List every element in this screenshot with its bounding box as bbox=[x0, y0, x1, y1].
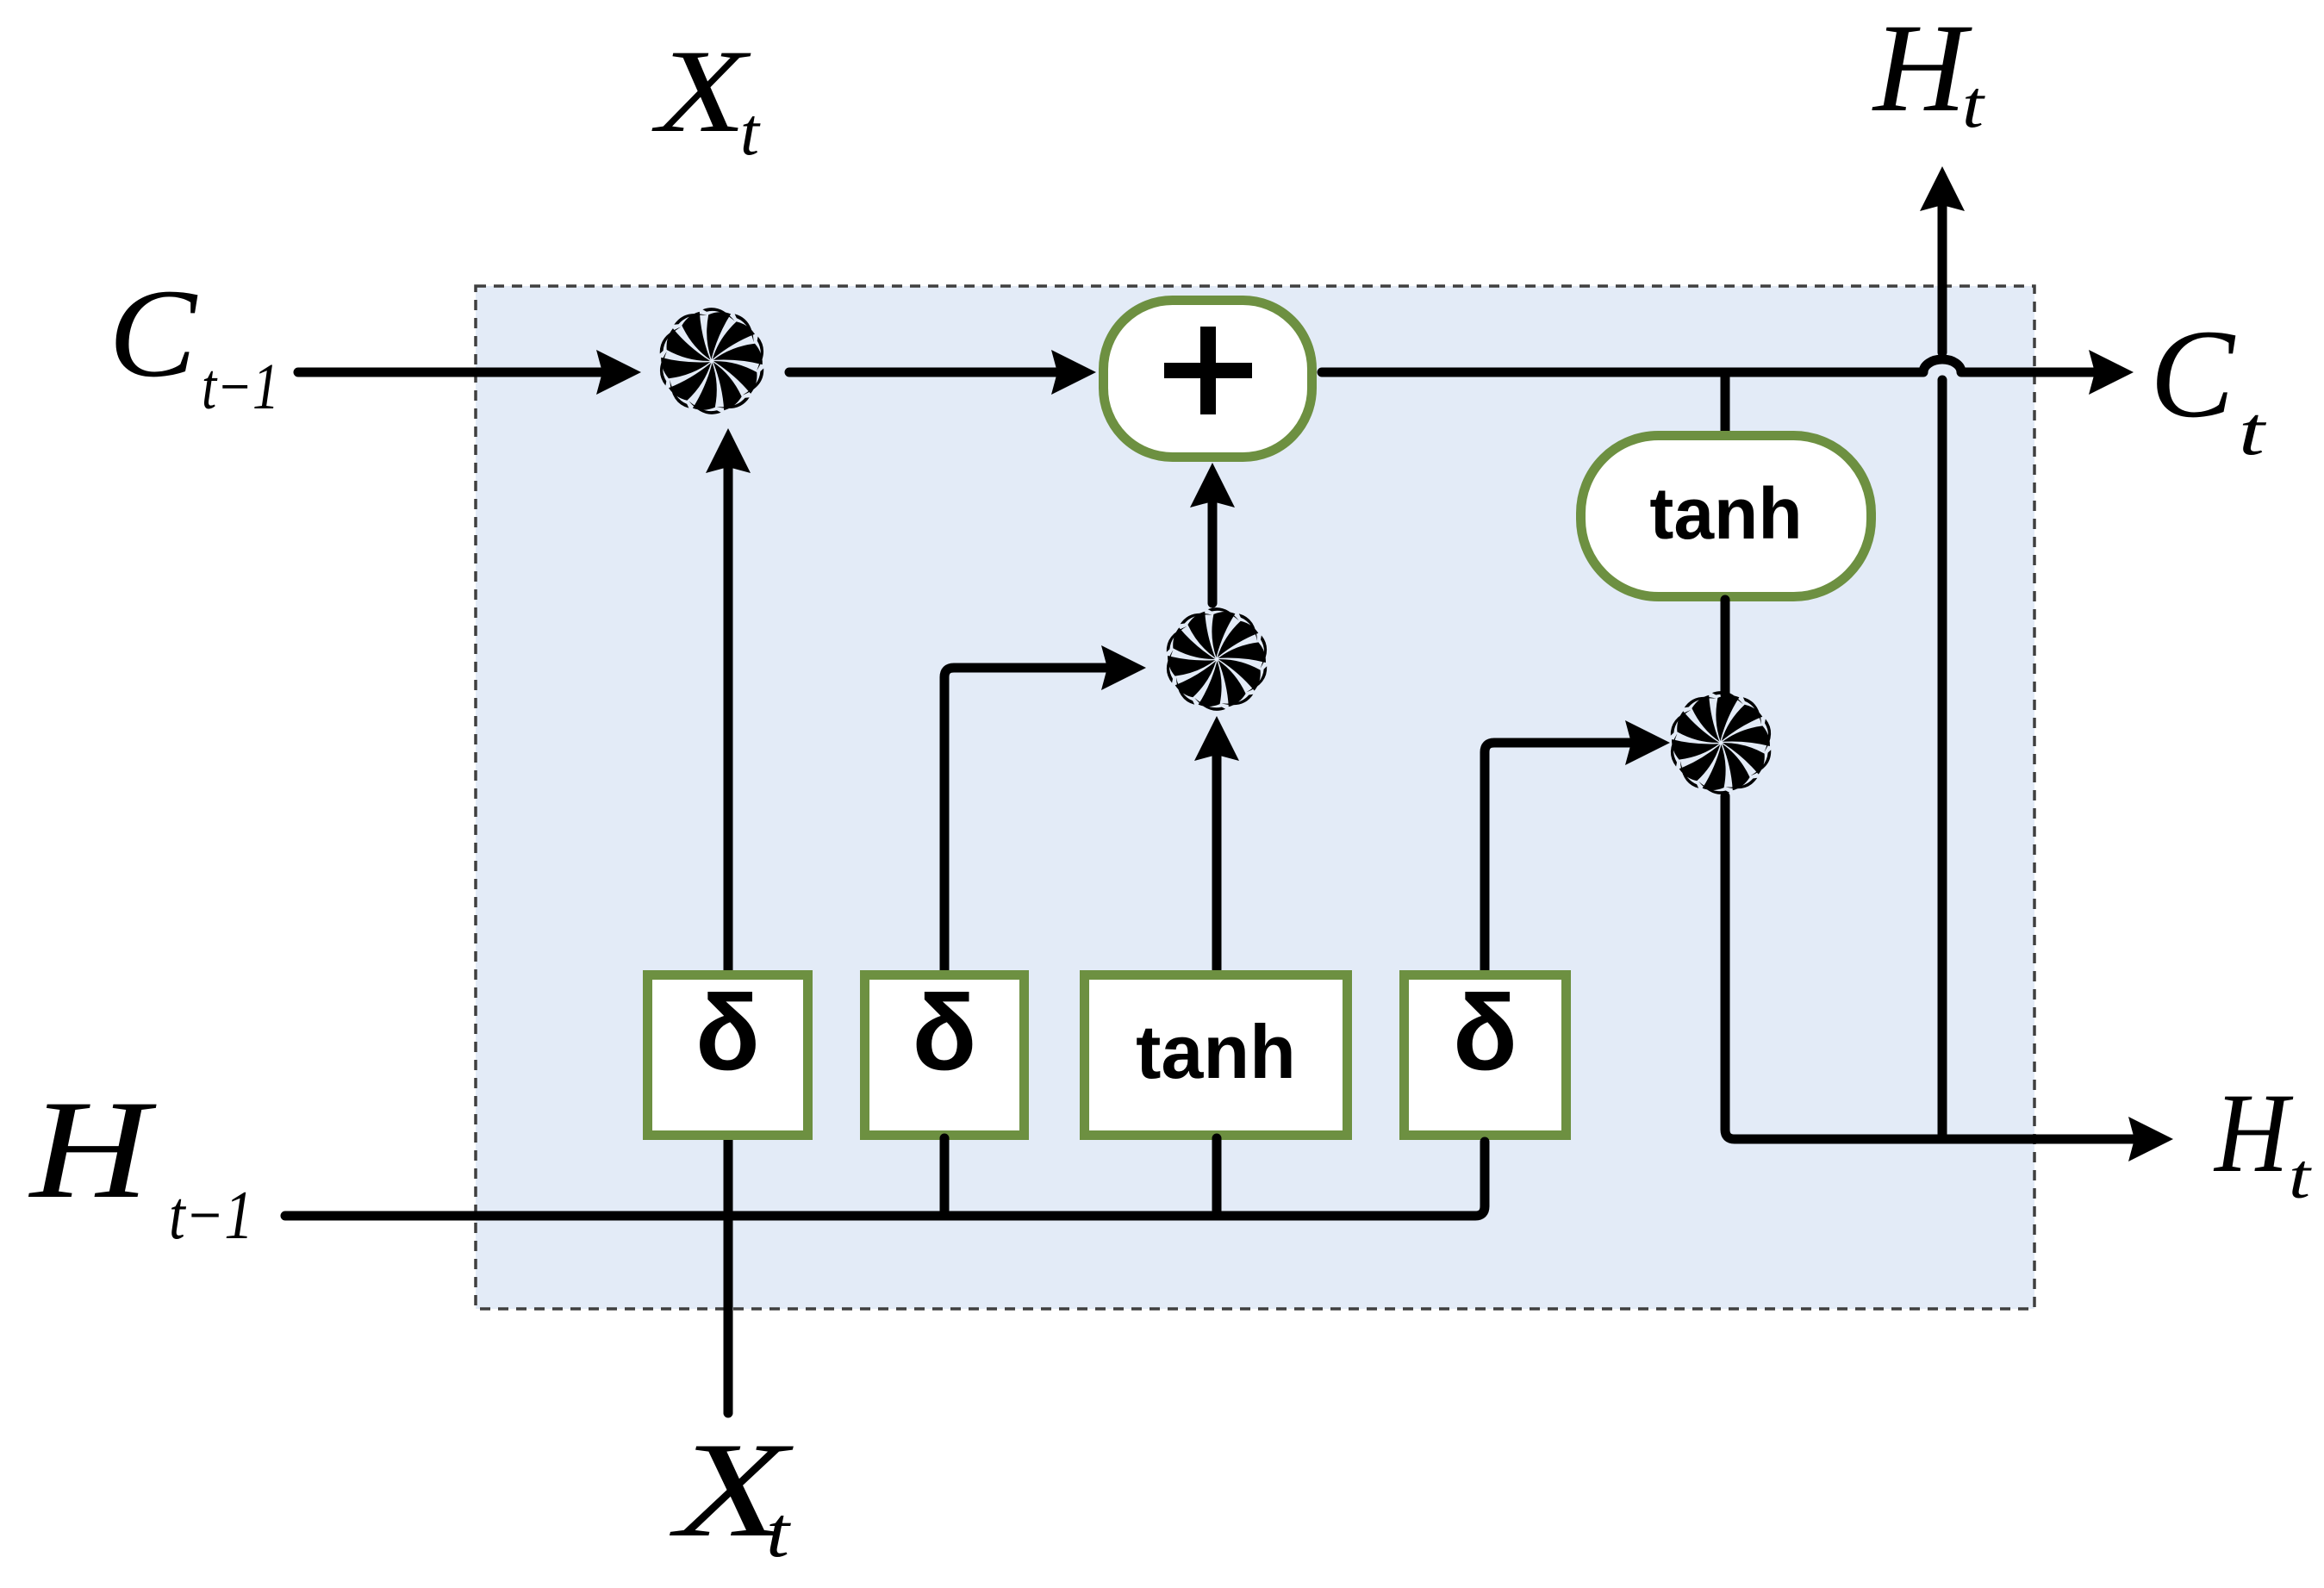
sigma gate box SIGMA1 (forget gate) bbox=[648, 974, 808, 1136]
svg-text:H: H bbox=[28, 1072, 157, 1228]
svg-text:δ: δ bbox=[695, 974, 760, 1093]
sigma gate box SIGMA4 (output gate) bbox=[1405, 974, 1567, 1136]
wire sigma4 to M3 bbox=[1485, 720, 1670, 972]
node label X(t) top bbox=[651, 25, 762, 169]
svg-text:X: X bbox=[651, 25, 751, 157]
svg-text:t−1: t−1 bbox=[202, 351, 279, 423]
svg-text:C: C bbox=[2150, 303, 2236, 444]
multiply node M1 (forget gate product) bbox=[660, 308, 763, 414]
wire M3 down and right to H(t) output bbox=[1725, 796, 2173, 1161]
svg-text:δ: δ bbox=[1453, 974, 1517, 1093]
node label C(t-1) left bbox=[109, 263, 279, 423]
svg-text:t: t bbox=[740, 94, 761, 169]
wire sigma2 bottom stub bbox=[940, 1138, 950, 1216]
node label C(t) right bbox=[2150, 303, 2266, 470]
node label X(t) bottom bbox=[669, 1415, 794, 1572]
wire C(t-1) input arrow bbox=[298, 350, 641, 395]
svg-text:t−1: t−1 bbox=[169, 1178, 253, 1254]
svg-text:δ: δ bbox=[912, 974, 976, 1093]
wire H(t) branch upward arrow (passes under hop) bbox=[1920, 166, 1965, 1139]
svg-text:t: t bbox=[2239, 394, 2266, 470]
adder node PLUS (cell state sum) bbox=[1104, 301, 1312, 458]
wire sigma1 up into M1 bbox=[706, 428, 751, 972]
wire tanh gate bottom stub bbox=[1212, 1138, 1222, 1216]
svg-text:tanh: tanh bbox=[1136, 1009, 1296, 1094]
cell container (dashed box) bbox=[476, 286, 2034, 1309]
wire tanh gate to M2 bbox=[1194, 716, 1239, 969]
wire M1 to adder bbox=[789, 350, 1096, 395]
svg-text:H: H bbox=[2213, 1069, 2294, 1196]
wire sigma1 down to X(t) input bbox=[724, 1140, 733, 1413]
node label H(t-1) bottom left bbox=[28, 1072, 253, 1254]
tanh gate box T2 (candidate) bbox=[1085, 975, 1348, 1136]
svg-text:t: t bbox=[766, 1492, 792, 1572]
svg-text:H: H bbox=[1872, 0, 1972, 138]
tanh activation box T1 (output) bbox=[1581, 436, 1872, 597]
node label H(t) top bbox=[1872, 0, 1986, 141]
wire tanh to multiply node M3 bbox=[1721, 600, 1730, 694]
wire M2 up into adder bbox=[1190, 463, 1235, 603]
svg-text:t: t bbox=[2289, 1142, 2313, 1212]
svg-text:t: t bbox=[1962, 66, 1986, 141]
wire junction to tanh box bbox=[1721, 372, 1730, 434]
multiply node M2 (input gate product) bbox=[1167, 607, 1267, 711]
svg-text:C: C bbox=[109, 263, 198, 403]
svg-text:tanh: tanh bbox=[1649, 473, 1802, 554]
multiply node M3 (output gate product) bbox=[1671, 691, 1771, 794]
node label H(t) right bbox=[2213, 1069, 2313, 1212]
sigma gate box SIGMA2 (input gate) bbox=[865, 974, 1025, 1136]
wire sigma2 to M2 bbox=[944, 645, 1146, 972]
wire H(t-1) input line bbox=[285, 1142, 1485, 1216]
wire adder to C(t) output with hop over H line bbox=[1322, 350, 2134, 395]
